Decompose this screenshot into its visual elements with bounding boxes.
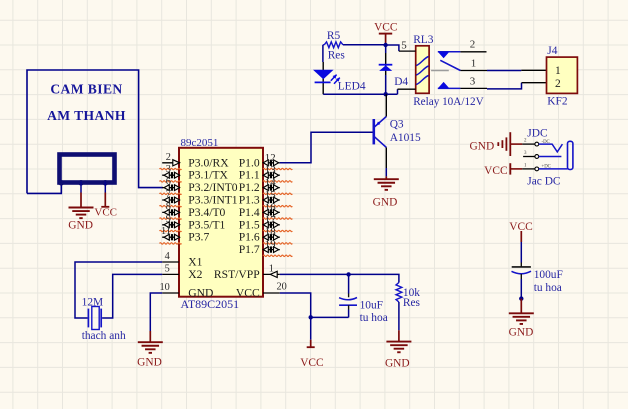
svg-text:P1.1: P1.1 — [239, 169, 260, 182]
svg-text:D4: D4 — [394, 76, 408, 88]
svg-text:13: 13 — [265, 164, 276, 176]
svg-text:CAM BIEN: CAM BIEN — [50, 82, 122, 97]
svg-text:10: 10 — [160, 282, 170, 293]
svg-text:tu hoa: tu hoa — [534, 282, 562, 294]
svg-text:16: 16 — [265, 201, 276, 213]
svg-text:P3.7: P3.7 — [188, 231, 209, 244]
svg-text:20: 20 — [277, 281, 287, 292]
svg-text:J4: J4 — [547, 45, 557, 57]
svg-text:VCC: VCC — [484, 165, 507, 177]
svg-text:14: 14 — [265, 177, 276, 189]
svg-text:AM THANH: AM THANH — [47, 108, 126, 123]
svg-text:1: 1 — [555, 65, 561, 77]
svg-text:5: 5 — [165, 263, 170, 274]
svg-text:9: 9 — [166, 214, 171, 225]
svg-text:P1.5: P1.5 — [239, 218, 260, 231]
svg-text:P1.4: P1.4 — [239, 206, 260, 219]
svg-text:12M: 12M — [82, 296, 104, 308]
svg-text:X1: X1 — [188, 256, 202, 269]
svg-text:3: 3 — [166, 164, 171, 175]
svg-text:thach anh: thach anh — [82, 330, 126, 342]
svg-text:GND: GND — [68, 220, 93, 232]
svg-text:100uF: 100uF — [534, 269, 563, 281]
svg-text:Res: Res — [328, 49, 346, 61]
svg-text:GND: GND — [137, 357, 162, 369]
svg-text:7: 7 — [166, 189, 171, 200]
svg-text:12: 12 — [265, 152, 276, 164]
svg-text:89c2051: 89c2051 — [181, 137, 219, 149]
svg-text:3: 3 — [470, 76, 476, 88]
svg-text:P1.3: P1.3 — [239, 194, 260, 207]
svg-text:VCC: VCC — [300, 357, 323, 369]
svg-text:LED4: LED4 — [338, 80, 366, 92]
svg-text:Jac DC: Jac DC — [527, 175, 560, 187]
svg-text:P3.1/TX: P3.1/TX — [188, 169, 228, 182]
svg-text:2: 2 — [555, 78, 561, 90]
svg-text:P1.0: P1.0 — [239, 156, 260, 169]
svg-text:P3.5/T1: P3.5/T1 — [188, 218, 225, 231]
svg-text:GND: GND — [385, 357, 410, 369]
svg-text:RL3: RL3 — [413, 34, 434, 46]
svg-text:RST/VPP: RST/VPP — [214, 268, 260, 281]
svg-text:P3.0/RX: P3.0/RX — [188, 156, 229, 169]
svg-text:VCC: VCC — [236, 287, 260, 300]
svg-text:GND: GND — [373, 196, 398, 208]
svg-text:R5: R5 — [327, 30, 341, 42]
svg-text:6: 6 — [166, 177, 171, 188]
svg-text:1: 1 — [471, 58, 477, 70]
svg-text:10uF: 10uF — [360, 300, 383, 312]
svg-text:19: 19 — [265, 239, 276, 251]
svg-text:P3.2/INT0: P3.2/INT0 — [188, 181, 237, 194]
svg-text:tu hoa: tu hoa — [360, 312, 388, 324]
svg-text:X2: X2 — [188, 268, 202, 281]
svg-text:P3.3/INT1: P3.3/INT1 — [188, 194, 237, 207]
svg-text:18: 18 — [265, 226, 276, 238]
svg-text:VCC: VCC — [94, 207, 117, 219]
svg-text:17: 17 — [265, 214, 276, 226]
svg-text:2: 2 — [166, 152, 171, 163]
svg-text:1: 1 — [269, 264, 274, 275]
svg-text:GND: GND — [470, 140, 495, 152]
svg-text:11: 11 — [161, 226, 171, 237]
svg-text:P3.4/T0: P3.4/T0 — [188, 206, 225, 219]
svg-text:Relay 10A/12V: Relay 10A/12V — [413, 96, 484, 108]
svg-text:8: 8 — [166, 201, 171, 212]
svg-text:GND: GND — [509, 327, 534, 339]
svg-text:Q3: Q3 — [390, 119, 404, 131]
svg-text:KF2: KF2 — [547, 96, 568, 108]
svg-text:4: 4 — [165, 251, 170, 262]
svg-text:Res: Res — [403, 297, 421, 309]
svg-text:GND: GND — [188, 287, 213, 300]
svg-text:A1015: A1015 — [390, 132, 421, 144]
svg-text:JDC: JDC — [527, 128, 547, 140]
svg-text:P1.7: P1.7 — [239, 243, 260, 256]
svg-text:2: 2 — [470, 39, 476, 51]
svg-text:5: 5 — [401, 40, 407, 52]
svg-text:15: 15 — [265, 189, 276, 201]
svg-text:P1.6: P1.6 — [239, 231, 260, 244]
svg-text:P1.2: P1.2 — [239, 181, 260, 194]
svg-text:VCC: VCC — [374, 21, 397, 33]
